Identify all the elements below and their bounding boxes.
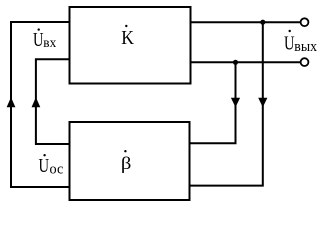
- svg-text:β: β: [121, 154, 132, 173]
- svg-text:вх: вх: [43, 34, 56, 49]
- svg-text:K: K: [121, 27, 134, 49]
- svg-text:вых: вых: [294, 38, 317, 55]
- svg-text:U: U: [33, 28, 44, 51]
- svg-text:ос: ос: [50, 161, 64, 177]
- svg-text:U: U: [284, 31, 295, 54]
- svg-text:U: U: [39, 154, 50, 177]
